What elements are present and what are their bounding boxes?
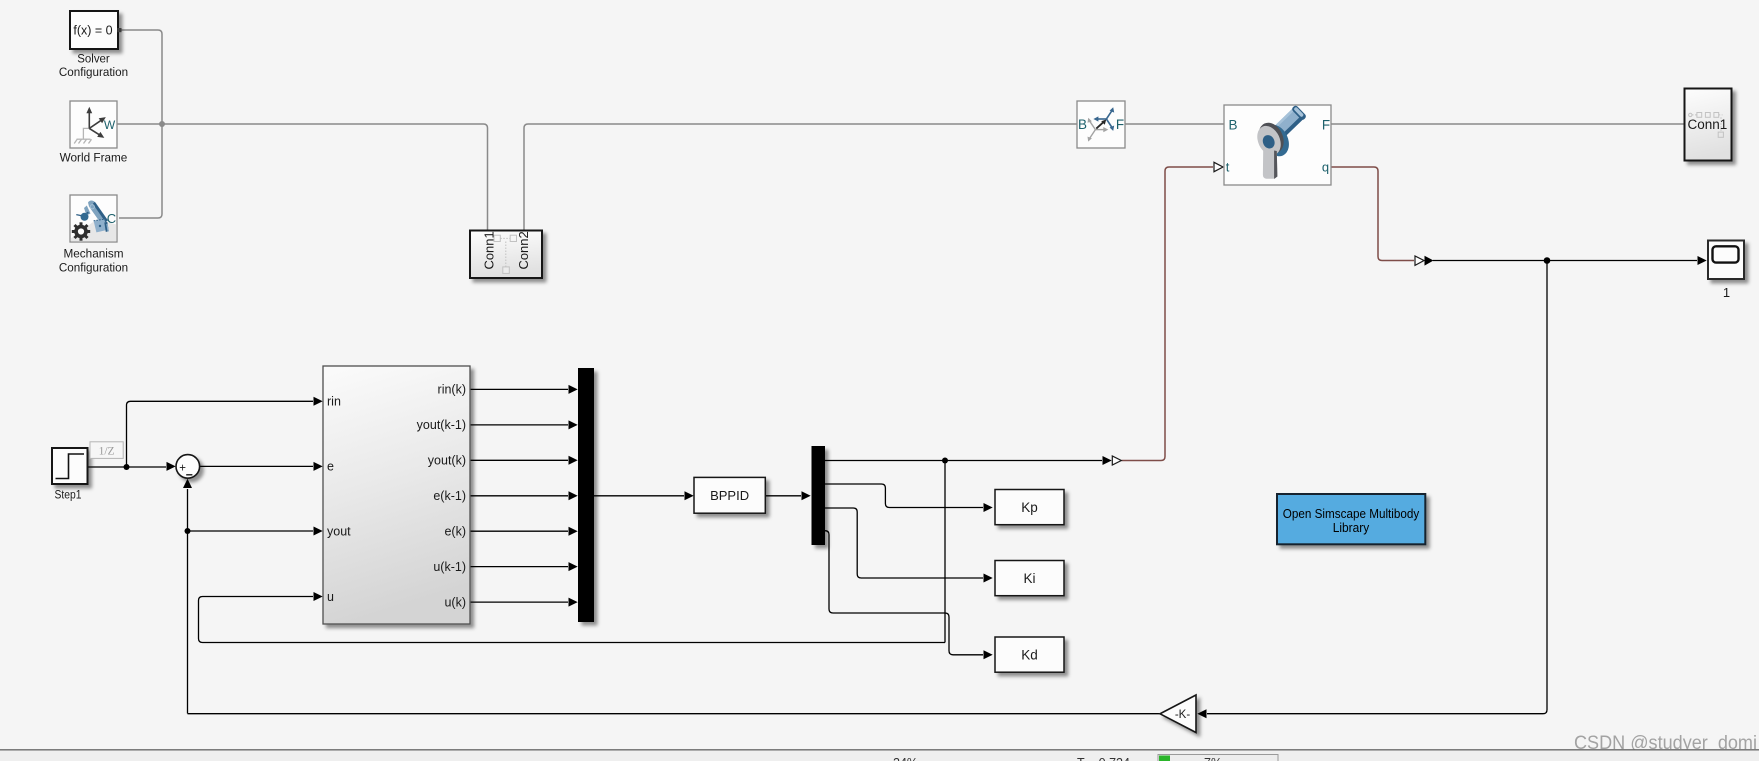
block Open Simscape Multibody Library link: [1277, 494, 1425, 544]
svg-text:BPPID: BPPID: [710, 488, 749, 503]
wire rigid-transform F to revolute B: [1125, 123, 1224, 125]
svg-text:+: +: [179, 463, 186, 475]
wire sum to e input: [200, 465, 313, 467]
block World Frame: [60, 101, 128, 164]
junction step1: [124, 464, 130, 470]
block Kd display: [995, 637, 1064, 672]
svg-text:Step1: Step1: [55, 487, 82, 501]
wire revolute F to right Conn1 block: [1331, 123, 1684, 125]
svg-text:f(x) = 0: f(x) = 0: [73, 24, 112, 38]
svg-text:e(k): e(k): [444, 525, 466, 539]
svg-text:Kd: Kd: [1021, 648, 1038, 663]
wire BPPID to demux: [765, 495, 801, 497]
svg-text:yout(k-1): yout(k-1): [417, 418, 466, 432]
arrow into sum left: [167, 462, 176, 471]
svg-text:World Frame: World Frame: [60, 150, 128, 164]
wire PS q-output (maroon): [1331, 167, 1414, 261]
arrow into Ki: [984, 574, 993, 583]
arrow into e: [314, 462, 323, 471]
wire mux to BPPID: [594, 495, 684, 497]
junction yout: [185, 528, 191, 534]
wire demux out4 to Kd: [825, 531, 983, 655]
wire u feedback from demux bus: [199, 597, 946, 643]
svg-text:yout: yout: [327, 524, 351, 538]
wire world-frame to Conn1 of middle subsystem: [117, 124, 488, 231]
arrow into sum bottom: [183, 479, 192, 488]
joint icon: [1253, 105, 1307, 179]
svg-text:-K-: -K-: [1175, 709, 1191, 721]
arrow converter on out1: [1103, 456, 1112, 465]
hollow triangle converter on out1: [1112, 456, 1121, 465]
wire demux out1 branch down to u feedback: [944, 461, 946, 643]
svg-text:Conn1: Conn1: [1688, 117, 1728, 132]
block right Conn1: [1685, 89, 1732, 161]
junction frame bus: [159, 121, 165, 127]
wire yout branch: [188, 530, 314, 532]
svg-text:24%: 24%: [893, 756, 918, 761]
wire branch to rin input: [127, 401, 314, 467]
svg-text:rin: rin: [327, 395, 341, 409]
block Gain -K-: [1160, 695, 1196, 733]
svg-text:W: W: [104, 118, 116, 132]
annotation 1/Z sample time badge: [90, 442, 123, 459]
wire feedback vertical into sum minus: [187, 489, 189, 714]
svg-text:yout(k): yout(k): [428, 454, 466, 468]
svg-text:rin(k): rin(k): [438, 383, 466, 397]
PS port triangle at t: [1214, 162, 1223, 171]
junction scope branch: [1544, 257, 1551, 264]
svg-text:Open Simscape Multibody: Open Simscape Multibody: [1283, 507, 1420, 521]
svg-text:B: B: [1228, 118, 1237, 133]
arrow into scope: [1698, 256, 1707, 265]
block BPPID: [694, 477, 765, 513]
arrow into demux: [802, 491, 811, 500]
arrow into u: [314, 592, 323, 601]
block Sum: [176, 455, 200, 479]
junction demux out1: [942, 458, 948, 464]
block middle Conn1/Conn2 subsystem: [470, 231, 542, 279]
arrow into rin: [314, 397, 323, 406]
block Demux: [812, 446, 826, 545]
block Step1: [52, 448, 88, 501]
svg-text:1: 1: [1723, 285, 1730, 300]
block BP-PID subsystem: [323, 366, 470, 624]
svg-text:q: q: [1322, 160, 1329, 175]
block Mux: [578, 368, 594, 622]
svg-text:e(k-1): e(k-1): [433, 489, 466, 503]
svg-text:B: B: [1078, 117, 1087, 132]
wire junction to gain input: [1207, 261, 1547, 714]
arrows into mux: [569, 385, 578, 394]
block Revolute Joint: [1224, 105, 1331, 185]
svg-text:Ki: Ki: [1023, 571, 1035, 586]
svg-text:u(k): u(k): [444, 595, 466, 609]
arrow into BPPID: [685, 491, 694, 500]
block Mechanism Configuration: [59, 195, 128, 275]
svg-text:Mechanism: Mechanism: [64, 247, 124, 261]
svg-text:u(k-1): u(k-1): [433, 560, 466, 574]
block Kp display: [995, 490, 1064, 525]
svg-text:Configuration: Configuration: [59, 261, 128, 275]
svg-text:Library: Library: [1333, 521, 1370, 535]
status bar: [0, 750, 1759, 761]
svg-text:F: F: [1322, 118, 1330, 133]
svg-text:Configuration: Configuration: [59, 65, 128, 79]
wire demux out3 to Ki: [825, 508, 983, 578]
block Ki display: [995, 561, 1064, 596]
svg-text:1/Z: 1/Z: [99, 445, 115, 457]
svg-text:C: C: [107, 211, 116, 226]
wire Conn2 of middle subsystem to rigid-transform B: [524, 124, 1077, 231]
svg-text:t: t: [1226, 160, 1230, 175]
robot arm icon: [76, 201, 109, 233]
svg-text:u: u: [327, 590, 334, 604]
arrow into Kp: [984, 503, 993, 512]
block Scope: [1708, 241, 1744, 301]
wire demux out2 to Kp: [825, 484, 983, 508]
wire gain output to sum: [188, 713, 1161, 715]
svg-text:7%: 7%: [1204, 756, 1222, 761]
wire converter to scope: [1433, 260, 1697, 262]
svg-text:Kp: Kp: [1021, 500, 1038, 515]
wire PS t-input (maroon): [1122, 167, 1214, 461]
svg-text:T = 0.724: T = 0.724: [1077, 756, 1130, 761]
block Rigid Transform: [1077, 101, 1125, 148]
arrow into gain (points left): [1197, 709, 1206, 718]
arrow into Kd: [984, 650, 993, 659]
wire solver-config to vertical bus: [119, 30, 162, 218]
svg-text:e: e: [327, 460, 334, 474]
arrow into yout: [314, 527, 323, 536]
wire step1 to sum: [88, 466, 166, 468]
PS converter triangles on q line: [1415, 256, 1424, 265]
gear icon: [72, 222, 90, 240]
wire subsystem outputs to mux: [470, 388, 568, 390]
wire demux out1 to PS converter: [825, 460, 1102, 462]
svg-text:Solver: Solver: [77, 52, 110, 66]
svg-text:F: F: [1116, 117, 1124, 132]
svg-text:Conn2: Conn2: [516, 231, 531, 269]
block Solver Configuration: [59, 11, 128, 79]
